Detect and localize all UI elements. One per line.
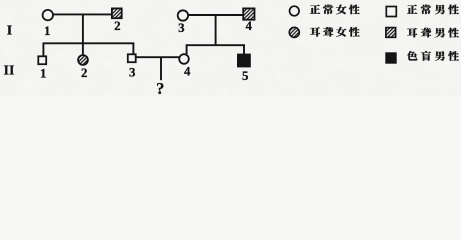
svg-text:?: ? (156, 79, 164, 96)
svg-text:I: I (7, 23, 12, 38)
svg-text:3: 3 (129, 66, 135, 80)
svg-text:5: 5 (242, 69, 248, 83)
svg-text:1: 1 (40, 67, 46, 81)
svg-text:2: 2 (114, 19, 120, 33)
svg-text:1: 1 (44, 24, 50, 38)
svg-text:4: 4 (245, 19, 252, 33)
svg-text:2: 2 (81, 66, 87, 80)
svg-text:II: II (4, 64, 15, 79)
svg-text:4: 4 (184, 65, 191, 79)
svg-text:3: 3 (178, 21, 184, 35)
